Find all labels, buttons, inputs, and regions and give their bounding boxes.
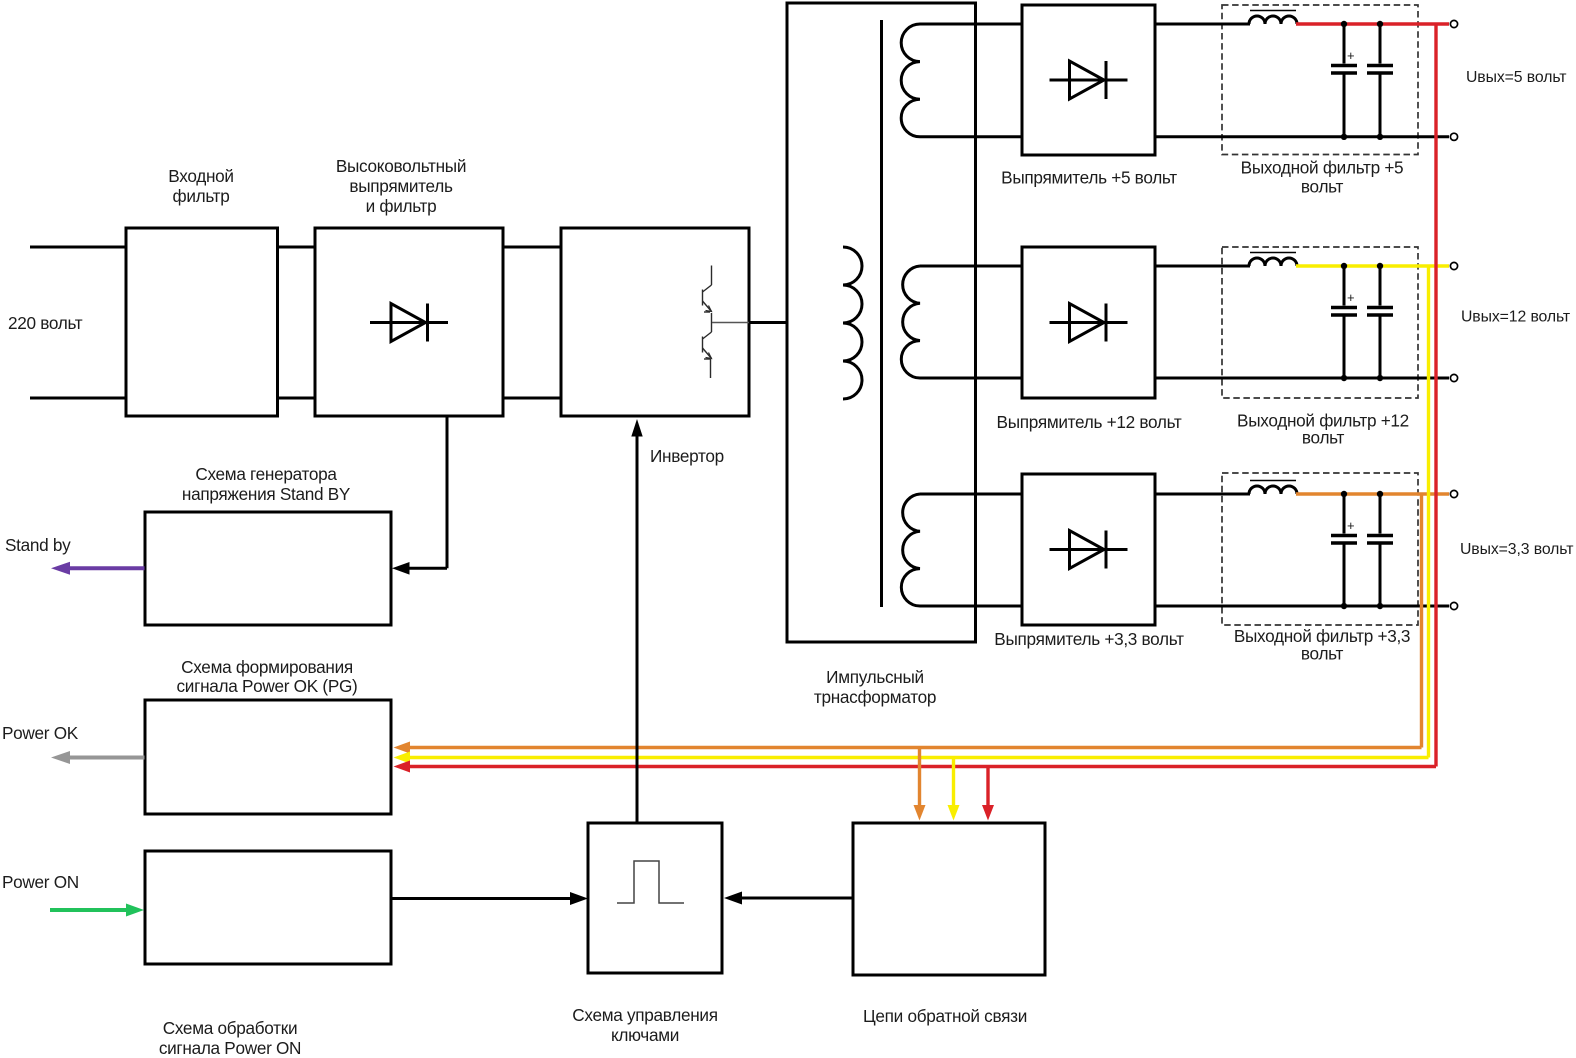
block rectifier +3.3V: [994, 474, 1184, 649]
diode inside rectifier +3.3V: [1050, 531, 1128, 569]
svg-text:сигнала Power ON: сигнала Power ON: [159, 1038, 301, 1058]
wire rectifier +3.3 bottom rail: [1155, 605, 1449, 608]
wire secondary2 top to rectifier +12: [920, 265, 1022, 268]
svg-text:Uвых=12 вольт: Uвых=12 вольт: [1461, 309, 1570, 326]
wire secondary2 bottom to rectifier +12: [920, 377, 1022, 380]
label inverter: [650, 446, 724, 466]
inductor L1 (+5V filter): [1249, 11, 1297, 25]
dashed box output filter +3.3V: [1222, 473, 1418, 664]
svg-text:сигнала Power OK (PG): сигнала Power OK (PG): [177, 676, 358, 696]
svg-text:фильтр: фильтр: [172, 186, 229, 206]
block inverter: [561, 228, 749, 416]
svg-text:Выпрямитель +12 вольт: Выпрямитель +12 вольт: [997, 412, 1182, 432]
svg-text:Выпрямитель +5 вольт: Выпрямитель +5 вольт: [1001, 168, 1177, 188]
inductor L2 (+12V filter): [1249, 253, 1297, 267]
diode inside rectifier +5V: [1050, 61, 1128, 99]
wire rectifier to inverter top: [503, 246, 561, 249]
wire yellow drop to feedback box: [952, 758, 955, 808]
svg-text:+: +: [1347, 48, 1355, 63]
capacitor C4 (+12V): [1367, 266, 1393, 378]
node 220V input label: [8, 313, 83, 333]
wire red feedback vertical: [1434, 24, 1437, 767]
svg-text:Цепи обратной связи: Цепи обратной связи: [863, 1006, 1027, 1026]
block rectifier +5V: [1001, 5, 1177, 188]
block Power OK former: [145, 657, 391, 814]
capacitor C6 (+3.3V): [1367, 494, 1393, 606]
wire rectifier +12 bottom rail: [1155, 377, 1449, 380]
wire key control to inverter: [636, 434, 639, 823]
wire secondary1 top to rectifier +5: [920, 23, 1022, 26]
label Uout 5V: [1466, 69, 1566, 86]
arrow into key control box (from feedback): [724, 892, 742, 905]
svg-text:Входной: Входной: [168, 166, 233, 186]
wire secondary1 bottom to rectifier +5: [920, 135, 1022, 138]
svg-text:Stand by: Stand by: [5, 535, 71, 555]
label Power OK: [2, 723, 79, 743]
block key control: [572, 823, 722, 1045]
wire yellow feedback horizontal: [408, 756, 1429, 759]
label Power ON: [2, 872, 79, 892]
svg-text:220 вольт: 220 вольт: [8, 313, 83, 333]
wire +12V output (yellow): [1296, 264, 1449, 267]
junction dots +3.3V row: [1341, 491, 1383, 609]
terminal +3.3V bottom: [1450, 602, 1457, 609]
transformer core: [880, 20, 883, 607]
svg-text:Схема формирования: Схема формирования: [181, 657, 353, 677]
svg-text:Высоковольтный: Высоковольтный: [336, 156, 466, 176]
wire inverter midpoint output (thin): [712, 322, 749, 324]
block input filter: [126, 166, 278, 416]
arrow yellow into feedback box: [948, 805, 960, 821]
arrow Stand by output (purple): [51, 562, 145, 575]
wire 220V bottom: [30, 397, 126, 400]
block pulse transformer: [787, 3, 976, 707]
junction dots +5V row: [1341, 21, 1383, 140]
wire secondary3 bottom to rectifier +3.3: [920, 605, 1022, 608]
wire secondary3 top to rectifier +3.3: [920, 493, 1022, 496]
svg-text:+: +: [1347, 290, 1355, 305]
arrow into inverter box: [631, 419, 642, 437]
svg-text:вольт: вольт: [1302, 428, 1345, 448]
svg-text:Power ON: Power ON: [2, 872, 79, 892]
wire yellow feedback vertical: [1427, 266, 1430, 758]
diode inside high-voltage rectifier: [370, 304, 448, 342]
transformer secondary winding 3: [901, 494, 920, 606]
arrow orange into Power OK box: [394, 742, 411, 754]
svg-text:Инвертор: Инвертор: [650, 446, 724, 466]
diode inside rectifier +12V: [1050, 304, 1128, 342]
svg-text:напряжения Stand BY: напряжения Stand BY: [182, 484, 351, 504]
arrow into Stand BY box: [392, 562, 410, 575]
svg-text:Выпрямитель +3,3 вольт: Выпрямитель +3,3 вольт: [994, 629, 1184, 649]
wire 220V top: [30, 246, 126, 249]
arrow red into Power OK box: [394, 761, 411, 773]
wire rectifier +5 bottom rail: [1155, 135, 1449, 138]
wire orange feedback horizontal: [408, 746, 1422, 749]
arrow red into feedback box: [982, 805, 994, 821]
wire feedback to key control: [740, 897, 853, 900]
wire red feedback horizontal: [408, 765, 1436, 768]
block Stand BY generator: [145, 464, 391, 625]
arrow Power ON input (green): [50, 904, 144, 917]
wire rectifier +12 to inductor: [1155, 265, 1250, 268]
svg-text:Uвых=3,3 вольт: Uвых=3,3 вольт: [1460, 541, 1573, 558]
wire inverter to transformer: [749, 321, 787, 324]
svg-text:+: +: [1347, 518, 1355, 533]
transistor Q1 (top, inside inverter): [703, 266, 712, 313]
wire filter to rectifier bottom: [278, 397, 316, 400]
svg-text:Схема обработки: Схема обработки: [163, 1018, 298, 1038]
transistor Q2 (bottom, inside inverter): [703, 313, 712, 378]
svg-text:Uвых=5 вольт: Uвых=5 вольт: [1466, 69, 1566, 86]
label Stand by: [5, 535, 71, 555]
terminal +12V bottom: [1450, 374, 1457, 381]
capacitor C5 (+3.3V, electrolytic): [1331, 494, 1357, 606]
junction dots +12V row: [1341, 263, 1383, 381]
terminal +3.3V top: [1450, 490, 1457, 497]
wire from HV rectifier down to Stand BY: [407, 416, 447, 568]
terminal +12V top: [1450, 262, 1457, 269]
wire +3.3V output (orange): [1296, 492, 1449, 495]
wire orange feedback vertical: [1420, 494, 1423, 748]
transformer primary winding: [843, 247, 862, 399]
wire rectifier +3.3 to inductor: [1155, 493, 1250, 496]
block rectifier +12V: [997, 247, 1182, 432]
wire +5V output (red): [1296, 22, 1449, 25]
svg-text:выпрямитель: выпрямитель: [349, 176, 453, 196]
svg-text:Схема управления: Схема управления: [572, 1005, 717, 1025]
capacitor C3 (+12V, electrolytic): [1331, 266, 1357, 378]
capacitor C1 (+5V, electrolytic): [1331, 24, 1357, 137]
svg-text:Схема генератора: Схема генератора: [195, 464, 337, 484]
terminal +5V bottom: [1450, 133, 1457, 140]
wire Power ON to key control: [391, 897, 572, 900]
wire orange drop to feedback box: [918, 748, 921, 808]
wire filter to rectifier top: [278, 246, 316, 249]
svg-text:Импульсный: Импульсный: [826, 667, 924, 687]
arrow into key control box (from Power ON): [570, 892, 588, 905]
arrow orange into feedback box: [914, 805, 926, 821]
svg-text:Power OK: Power OK: [2, 723, 79, 743]
svg-text:Выходной фильтр +5: Выходной фильтр +5: [1241, 158, 1404, 178]
transformer secondary winding 2: [901, 266, 920, 378]
arrow Power OK output (gray): [51, 751, 145, 764]
svg-text:ключами: ключами: [611, 1025, 679, 1045]
wire rectifier +5 to inductor: [1155, 23, 1250, 26]
pulse symbol inside key control: [617, 861, 684, 903]
dashed box output filter +5V: [1222, 5, 1418, 197]
label Uout 12V: [1461, 309, 1570, 326]
svg-text:трнасформатор: трнасформатор: [814, 687, 936, 707]
transformer secondary winding 1: [901, 24, 920, 137]
inductor L3 (+3.3V filter): [1249, 481, 1297, 495]
block Power ON processor: [145, 851, 391, 1058]
terminal +5V top: [1450, 20, 1457, 27]
block feedback circuits: [853, 823, 1045, 1026]
arrow yellow into Power OK box: [394, 752, 411, 764]
block high-voltage rectifier and filter: [315, 156, 503, 416]
svg-text:и фильтр: и фильтр: [366, 196, 437, 216]
wire red drop to feedback box: [986, 767, 989, 808]
wire rectifier to inverter bottom: [503, 397, 561, 400]
label Uout 3.3V: [1460, 541, 1573, 558]
dashed box output filter +12V: [1222, 247, 1418, 448]
capacitor C2 (+5V): [1367, 24, 1393, 137]
svg-text:вольт: вольт: [1301, 177, 1344, 197]
svg-text:вольт: вольт: [1301, 644, 1344, 664]
